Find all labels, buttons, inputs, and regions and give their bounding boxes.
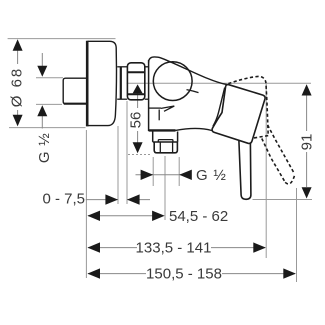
- extension line x118: [117, 126, 119, 204]
- svg-text:56: 56: [128, 112, 145, 129]
- body ledge: [149, 107, 161, 109]
- extension line outlet right: [178, 157, 180, 186]
- svg-text:54,5 - 62: 54,5 - 62: [169, 208, 228, 225]
- svg-text:G ½: G ½: [196, 167, 227, 184]
- dimension 133,5 - 141: [87, 240, 266, 257]
- extension line x127: [126, 101, 128, 204]
- cartridge dome: [153, 62, 192, 101]
- extension line stub bottom: [36, 103, 62, 105]
- dashed handle alternate position: [228, 76, 294, 184]
- body small vertical mark: [158, 110, 160, 121]
- svg-text:150,5 - 158: 150,5 - 158: [146, 266, 222, 283]
- handle grip solid: [212, 85, 265, 144]
- extension line bottom of escutcheon: [9, 127, 86, 129]
- connection nut: [127, 63, 148, 100]
- handle cap joint line: [213, 88, 225, 127]
- dimension G half stub: [36, 53, 53, 163]
- extension line outlet centre: [164, 156, 166, 220]
- outlet connection: [153, 132, 178, 153]
- hidden dotted line under outlet: [128, 154, 152, 156]
- dimension 54,5 - 62: [87, 208, 228, 225]
- extension line wall plane: [85, 130, 87, 278]
- escutcheon rear collar: [117, 67, 127, 99]
- wall stub G half: [63, 78, 86, 104]
- body wedge mark: [161, 106, 174, 111]
- spout tick: [187, 90, 199, 93]
- svg-text:0 - 7,5: 0 - 7,5: [42, 191, 85, 208]
- extension line lever tip x296: [296, 188, 298, 282]
- grey extension lines: [8, 39, 312, 282]
- extension line handle max x266: [265, 84, 267, 258]
- dimension 150,5 - 158: [87, 266, 296, 283]
- escutcheon wall plate: [87, 41, 116, 127]
- mixer body: [149, 57, 227, 131]
- extension line lever tip horizontal: [253, 199, 313, 201]
- svg-text:133,5 - 141: 133,5 - 141: [136, 240, 212, 257]
- svg-text:G ½: G ½: [36, 132, 53, 163]
- dimension Ø 68: [9, 39, 26, 126]
- extension line stub top: [36, 77, 63, 79]
- svg-text:91: 91: [299, 134, 316, 151]
- axis centre line: [127, 82, 312, 84]
- dimension 91: [299, 84, 316, 198]
- extension line outlet left: [152, 157, 154, 186]
- dimension 56: [128, 84, 145, 153]
- dimension G half outlet: [136, 167, 227, 184]
- lever bar solid: [239, 141, 251, 200]
- extension line top of escutcheon: [8, 38, 116, 40]
- dimension 0 - 7,5: [42, 191, 150, 208]
- svg-text:Ø 68: Ø 68: [9, 67, 26, 108]
